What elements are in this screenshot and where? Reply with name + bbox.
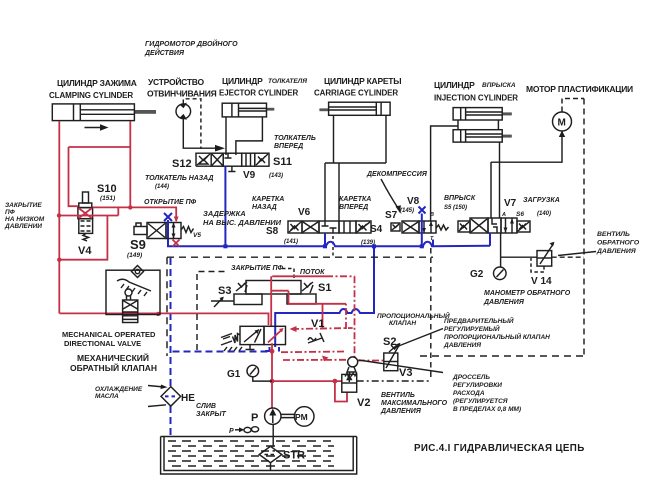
mechanical valve box (106, 270, 160, 314)
svg-text:ДЕКОМПРЕССИЯ: ДЕКОМПРЕССИЯ (366, 171, 428, 178)
dashed stub V7 area (430, 248, 432, 381)
red dash-dot under valve b (283, 356, 383, 362)
valve V1 left spring (233, 334, 241, 344)
label охлаждение масла (95, 386, 143, 400)
label задержка (203, 209, 282, 227)
valve V1 body (240, 326, 286, 344)
svg-text:G1: G1 (227, 369, 241, 380)
wire red cylinder right port down (129, 121, 131, 207)
svg-text:ТОЛКАТЕЛЬ: ТОЛКАТЕЛЬ (274, 135, 316, 142)
check valve spool (123, 300, 138, 323)
svg-text:S7: S7 (385, 210, 398, 221)
motor supply line (491, 131, 562, 162)
leader декомпрессия arrow (381, 179, 401, 213)
motor dashed link (562, 99, 584, 112)
svg-text:S9: S9 (130, 237, 146, 252)
svg-text:ПРЕДВАРИТЕЛЬНЫЙ: ПРЕДВАРИТЕЛЬНЫЙ (444, 316, 514, 325)
label ejector forward (274, 135, 316, 150)
svg-text:MECHANICAL OPERATED: MECHANICAL OPERATED (62, 330, 156, 339)
svg-text:A: A (501, 212, 506, 218)
svg-text:РИС.4.I ГИДРАВЛИЧЕСКАЯ ЦЕПЬ: РИС.4.I ГИДРАВЛИЧЕСКАЯ ЦЕПЬ (414, 443, 585, 454)
solenoid S8 (288, 221, 302, 233)
svg-text:В ПРЕДЕЛАХ 0,8 ММ): В ПРЕДЕЛАХ 0,8 ММ) (453, 406, 521, 413)
valve V7 (470, 218, 517, 233)
svg-text:РАСХОДА: РАСХОДА (453, 390, 485, 397)
svg-text:ОХЛАЖДЕНИЕ: ОХЛАЖДЕНИЕ (95, 386, 143, 393)
svg-text:P: P (229, 428, 234, 435)
manifold dashed bottom right part (420, 355, 584, 357)
arrow to HE top (148, 385, 168, 390)
svg-text:ЗАКРЫТИЕ ПФ: ЗАКРЫТИЕ ПФ (231, 265, 283, 272)
svg-text:S3: S3 (218, 285, 231, 297)
label пропоциональный клапан (377, 311, 450, 327)
clamping cylinder motion arrow (85, 124, 109, 130)
svg-text:МАСЛА: МАСЛА (95, 393, 119, 400)
svg-text:РЕГУЛИРУЕМЫЙ: РЕГУЛИРУЕМЫЙ (444, 324, 500, 333)
svg-text:ПОТОК: ПОТОК (300, 269, 325, 276)
svg-text:ДАВЛЕНИЯ: ДАВЛЕНИЯ (483, 299, 525, 306)
svg-text:S5 (150): S5 (150) (444, 205, 467, 211)
svg-text:INJECTION CYLINDER: INJECTION CYLINDER (434, 94, 518, 103)
label unscrewing device (147, 76, 217, 99)
line STR to tank bottom (270, 463, 272, 471)
label впрыск (444, 195, 476, 211)
V14 pilot dashed loop (531, 258, 544, 272)
blue bus junction dots (223, 244, 423, 248)
svg-text:EJECTOR CYLINDER: EJECTOR CYLINDER (219, 89, 298, 98)
wire to V7 left top port (490, 162, 492, 218)
svg-text:(РЕГУЛИРУЕТСЯ: (РЕГУЛИРУЕТСЯ (453, 398, 508, 405)
variable symbol P arrow (229, 427, 259, 435)
wire to V14 (501, 256, 537, 258)
red dash-dot under valve a (281, 351, 345, 354)
hydromotor circle (176, 103, 191, 120)
svg-text:ЗАКРЫТИЕ: ЗАКРЫТИЕ (5, 202, 42, 209)
svg-text:ДРОССЕЛЬ: ДРОССЕЛЬ (452, 374, 490, 381)
red pilot loop (271, 276, 354, 329)
roller actuator (125, 289, 132, 300)
clamping cylinder body (52, 104, 156, 121)
svg-text:V9: V9 (243, 170, 256, 181)
svg-text:МОТОР ПЛАСТИФИКАЦИИ: МОТОР ПЛАСТИФИКАЦИИ (526, 84, 633, 94)
valve V8 spring (436, 225, 449, 230)
svg-text:DIRECTIONAL VALVE: DIRECTIONAL VALVE (64, 339, 141, 348)
blue branch to V1 (275, 246, 374, 347)
svg-text:ВПРЫСК: ВПРЫСК (444, 195, 476, 202)
blue dashed vertical line (170, 258, 172, 387)
label injection cylinder (434, 80, 518, 103)
valve V1 hatch under (224, 347, 242, 351)
solenoid S5 (458, 221, 470, 232)
svg-text:V 14: V 14 (531, 276, 552, 287)
solenoid S4 (356, 221, 371, 233)
label ejector back (145, 175, 213, 190)
svg-text:ВЕНТИЛЬ: ВЕНТИЛЬ (381, 392, 415, 399)
svg-text:ЗАДЕРЖКА: ЗАДЕРЖКА (203, 209, 246, 218)
svg-text:P: P (251, 412, 258, 424)
svg-text:ВПРЫСКА: ВПРЫСКА (482, 82, 516, 89)
valve S9 body (147, 223, 181, 239)
black T hooks under V1 (246, 345, 255, 350)
svg-text:ТОЛКАТЕЛЯ: ТОЛКАТЕЛЯ (268, 78, 307, 85)
svg-text:НА ВЫС. ДАВЛЕНИИ: НА ВЫС. ДАВЛЕНИИ (203, 218, 282, 227)
label карета вперед (339, 196, 371, 211)
red junction dots on long line (124, 312, 160, 317)
svg-text:S8: S8 (266, 226, 279, 237)
label слив закрыт (196, 403, 227, 418)
ejector cylinder body (222, 103, 274, 117)
svg-text:ЦИЛИНДР: ЦИЛИНДР (434, 80, 475, 90)
svg-text:(151): (151) (100, 195, 115, 202)
wire V6 drain dashed (332, 236, 334, 257)
svg-text:УСТРОЙСТВО: УСТРОЙСТВО (148, 76, 204, 87)
svg-text:S6: S6 (516, 211, 524, 218)
svg-text:ПРОПОЦИОНАЛЬНЫЙ: ПРОПОЦИОНАЛЬНЫЙ (377, 311, 450, 320)
solenoid S1 symbol (302, 282, 313, 293)
valve V1 left prop symbol (221, 334, 232, 346)
blue X mark V8 (419, 207, 426, 214)
wire V8 T to bus (432, 240, 434, 247)
svg-text:ПФ: ПФ (5, 209, 16, 216)
label вентиль максимального давления (380, 392, 448, 415)
valve V14 (537, 242, 555, 266)
label закрытие ПФ на низком давлении (4, 202, 45, 230)
wire red long horizontal to V1 (59, 313, 268, 325)
red X on V4 (79, 208, 93, 218)
valve V9 (211, 153, 255, 166)
svg-text:ОБРАТНОГО: ОБРАТНОГО (597, 240, 640, 247)
solenoid S11 (255, 153, 269, 166)
svg-text:PM: PM (295, 412, 308, 422)
leader вентиль обратного to V14 (558, 252, 596, 256)
svg-text:V6: V6 (298, 207, 311, 218)
gauge G1 (247, 365, 272, 381)
solenoid S3 symbol (236, 282, 247, 292)
blue bus main (168, 220, 490, 246)
svg-text:V3: V3 (399, 367, 412, 379)
red junction dot pump line (270, 379, 275, 384)
valve V2 (342, 374, 357, 392)
svg-text:(144): (144) (155, 184, 169, 190)
svg-text:ДАВЛЕНИЯ: ДАВЛЕНИЯ (380, 408, 422, 415)
label вентиль обратного давления (596, 231, 640, 255)
svg-text:(145): (145) (400, 208, 414, 214)
valve V8 (402, 221, 436, 233)
pilot valve box S3 lower (234, 294, 262, 305)
svg-text:ТОЛКАТЕЛЬ НАЗАД: ТОЛКАТЕЛЬ НАЗАД (145, 175, 213, 182)
leader закрытие dash step (282, 269, 294, 282)
carriage cylinder body (319, 102, 390, 115)
wire red cylinder left port down (58, 121, 60, 313)
solenoid S7 (391, 223, 400, 231)
svg-text:НЕ: НЕ (181, 393, 195, 404)
svg-text:S1: S1 (318, 282, 331, 294)
label ejector cylinder (219, 76, 307, 98)
svg-text:(143): (143) (269, 173, 283, 179)
ejector cylinder port lines (226, 117, 262, 155)
svg-text:CARRIAGE CYLINDER: CARRIAGE CYLINDER (314, 89, 398, 98)
manifold dashed left (166, 257, 168, 356)
red junction dots (57, 205, 133, 262)
valve S9 plug (134, 223, 147, 235)
svg-text:CLAMPING CYLINDER: CLAMPING CYLINDER (49, 91, 133, 100)
svg-text:S10: S10 (97, 183, 117, 195)
svg-text:G2: G2 (470, 269, 484, 280)
hydromotor drain dashed line (183, 99, 201, 149)
valve V4 spring (83, 233, 89, 241)
tank walls (161, 437, 357, 475)
svg-text:КАРЕТКА: КАРЕТКА (339, 196, 371, 203)
svg-text:ВПЕРЕД: ВПЕРЕД (274, 143, 303, 150)
svg-text:ОБРАТНЫЙ КЛАПАН: ОБРАТНЫЙ КЛАПАН (70, 362, 157, 373)
gauge G2 (494, 257, 507, 279)
dashed right border (583, 99, 585, 357)
filter STR (259, 446, 282, 462)
valve V3 (384, 343, 401, 371)
solenoid S6 (517, 221, 530, 232)
mechanical ramp symbol (117, 279, 151, 296)
manifold dashed top (167, 256, 433, 258)
svg-text:ВЕНТИЛЬ: ВЕНТИЛЬ (597, 231, 630, 238)
label предварительный... (443, 316, 550, 349)
pilot ball (345, 357, 358, 377)
wire V8 to blue bus (421, 214, 423, 247)
valve S9 spring V5 (181, 227, 194, 233)
svg-text:ОТВИНЧИВАНИЯ: ОТВИНЧИВАНИЯ (147, 89, 217, 99)
leader to дроссель text (359, 360, 443, 373)
wire V7 P port blue (489, 233, 491, 246)
wire red to V2 (272, 381, 347, 401)
svg-text:(141): (141) (284, 239, 298, 245)
motor PM (281, 407, 314, 427)
solenoid S12 (196, 153, 211, 166)
red X mark S9 drain (173, 240, 180, 247)
label carriage cylinder (314, 76, 401, 98)
wire red cross link (69, 147, 131, 206)
valve V6 (302, 221, 356, 233)
blue dashed into tank (170, 406, 172, 436)
svg-text:НА НИЗКОМ: НА НИЗКОМ (5, 216, 45, 223)
wire S9 blue drop (167, 221, 169, 226)
svg-text:ДАВЛЕНИИ: ДАВЛЕНИИ (4, 223, 42, 230)
svg-text:ДАВЛЕНИЯ: ДАВЛЕНИЯ (443, 342, 481, 349)
wire V7 B down to G2 junction (500, 233, 502, 257)
red arrowhead into S9 (174, 217, 179, 223)
svg-text:V7: V7 (504, 198, 517, 209)
blue dashed drain to HE (171, 351, 268, 353)
valve V4 stack (78, 192, 93, 233)
injection cylinder bottom port line (499, 142, 501, 218)
motor M circle (553, 112, 572, 131)
label карета назад (252, 196, 284, 211)
label манометр обратного давления (483, 290, 571, 306)
svg-text:ЦИЛИНДР: ЦИЛИНДР (222, 76, 263, 86)
arrow from HE bottom (148, 405, 166, 407)
blue X mark S9 (164, 213, 172, 221)
svg-text:V8: V8 (407, 196, 420, 207)
svg-text:ОТКРЫТИЕ ПФ: ОТКРЫТИЕ ПФ (144, 199, 197, 206)
wire red V4 loop (59, 207, 119, 259)
svg-text:ЦИЛИНДР КАРЕТЫ: ЦИЛИНДР КАРЕТЫ (324, 76, 401, 86)
red dash-dot into V1 right (290, 304, 353, 332)
pilot block inner dashed border (197, 272, 227, 351)
wire red открытие ПФ (93, 207, 177, 221)
svg-text:M: M (558, 118, 566, 129)
label mechanical operated (62, 330, 157, 373)
prop adjust symbol below V1 (308, 333, 324, 343)
svg-text:ЗАКРЫТ: ЗАКРЫТ (196, 411, 227, 418)
label clamping cylinder (49, 78, 137, 100)
svg-text:V2: V2 (357, 397, 370, 409)
svg-text:S11: S11 (273, 156, 292, 168)
svg-text:ЦИЛИНДР ЗАЖИМА: ЦИЛИНДР ЗАЖИМА (57, 78, 137, 88)
svg-text:МЕХАНИЧЕСКИЙ: МЕХАНИЧЕСКИЙ (77, 352, 149, 363)
svg-text:КАРЕТКА: КАРЕТКА (252, 196, 284, 203)
pump P (265, 408, 281, 424)
red junction dot valve bottom (270, 349, 275, 354)
label дроссель... (452, 374, 521, 413)
valve V9 tank stub (228, 166, 235, 171)
HE diamond (161, 387, 181, 407)
svg-text:МАНОМЕТР ОБРАТНОГО: МАНОМЕТР ОБРАТНОГО (484, 290, 571, 297)
pilot valve box S1 lower (287, 294, 316, 304)
label hydromotor header (144, 39, 238, 57)
red junction dot V2 (333, 379, 338, 384)
svg-text:S4: S4 (370, 224, 383, 235)
svg-text:ПРОПОРЦИОНАЛЬНЫЙ КЛАПАН: ПРОПОРЦИОНАЛЬНЫЙ КЛАПАН (444, 332, 550, 341)
svg-text:КЛАПАН: КЛАПАН (389, 320, 416, 327)
svg-text:МАКСИМАЛЬНОГО: МАКСИМАЛЬНОГО (381, 400, 448, 407)
svg-text:(149): (149) (127, 252, 142, 259)
wire V9 to blue bus (224, 166, 226, 246)
check diamond on box top (132, 266, 144, 278)
S2 coil symbol (389, 345, 398, 352)
tank hatching (168, 441, 334, 466)
carriage cylinder port lines (325, 115, 386, 221)
svg-text:S2: S2 (383, 336, 396, 348)
suction line (272, 424, 274, 446)
svg-text:НАЗАД: НАЗАД (252, 204, 277, 211)
dashed wire V14 right (552, 256, 584, 258)
svg-text:(140): (140) (537, 211, 551, 217)
svg-text:S12: S12 (172, 158, 192, 170)
wire V6 to blue bus (324, 233, 326, 246)
black dashdot from V2 (357, 380, 430, 382)
svg-text:B: B (430, 212, 434, 218)
injection cylinder body (453, 108, 512, 143)
svg-text:V4: V4 (78, 245, 92, 257)
red dash-dot right vertical (354, 276, 356, 357)
hydromotor supply line with arrow (183, 119, 225, 152)
svg-text:ГИДРОМОТОР ДВОЙНОГО: ГИДРОМОТОР ДВОЙНОГО (145, 39, 238, 48)
svg-text:ЗАГРУЗКА: ЗАГРУЗКА (523, 197, 560, 204)
pilot valve box upper (246, 281, 301, 295)
leader to предварительный text (396, 329, 443, 348)
svg-text:ВПЕРЕД: ВПЕРЕД (339, 204, 368, 211)
wire S3 pilot with throttle (211, 297, 234, 307)
svg-text:ДАВЛЕНИЯ: ДАВЛЕНИЯ (596, 248, 637, 255)
svg-text:СЛИВ: СЛИВ (196, 403, 216, 410)
wire red pump to V1 (271, 343, 273, 408)
injection cylinder left port line (431, 126, 458, 221)
svg-text:ДЕЙСТВИЯ: ДЕЙСТВИЯ (144, 48, 185, 57)
svg-text:РЕГУЛИРОВКИ: РЕГУЛИРОВКИ (453, 382, 502, 389)
blue T hook under V1 (265, 347, 279, 352)
svg-text:V5: V5 (193, 232, 201, 239)
